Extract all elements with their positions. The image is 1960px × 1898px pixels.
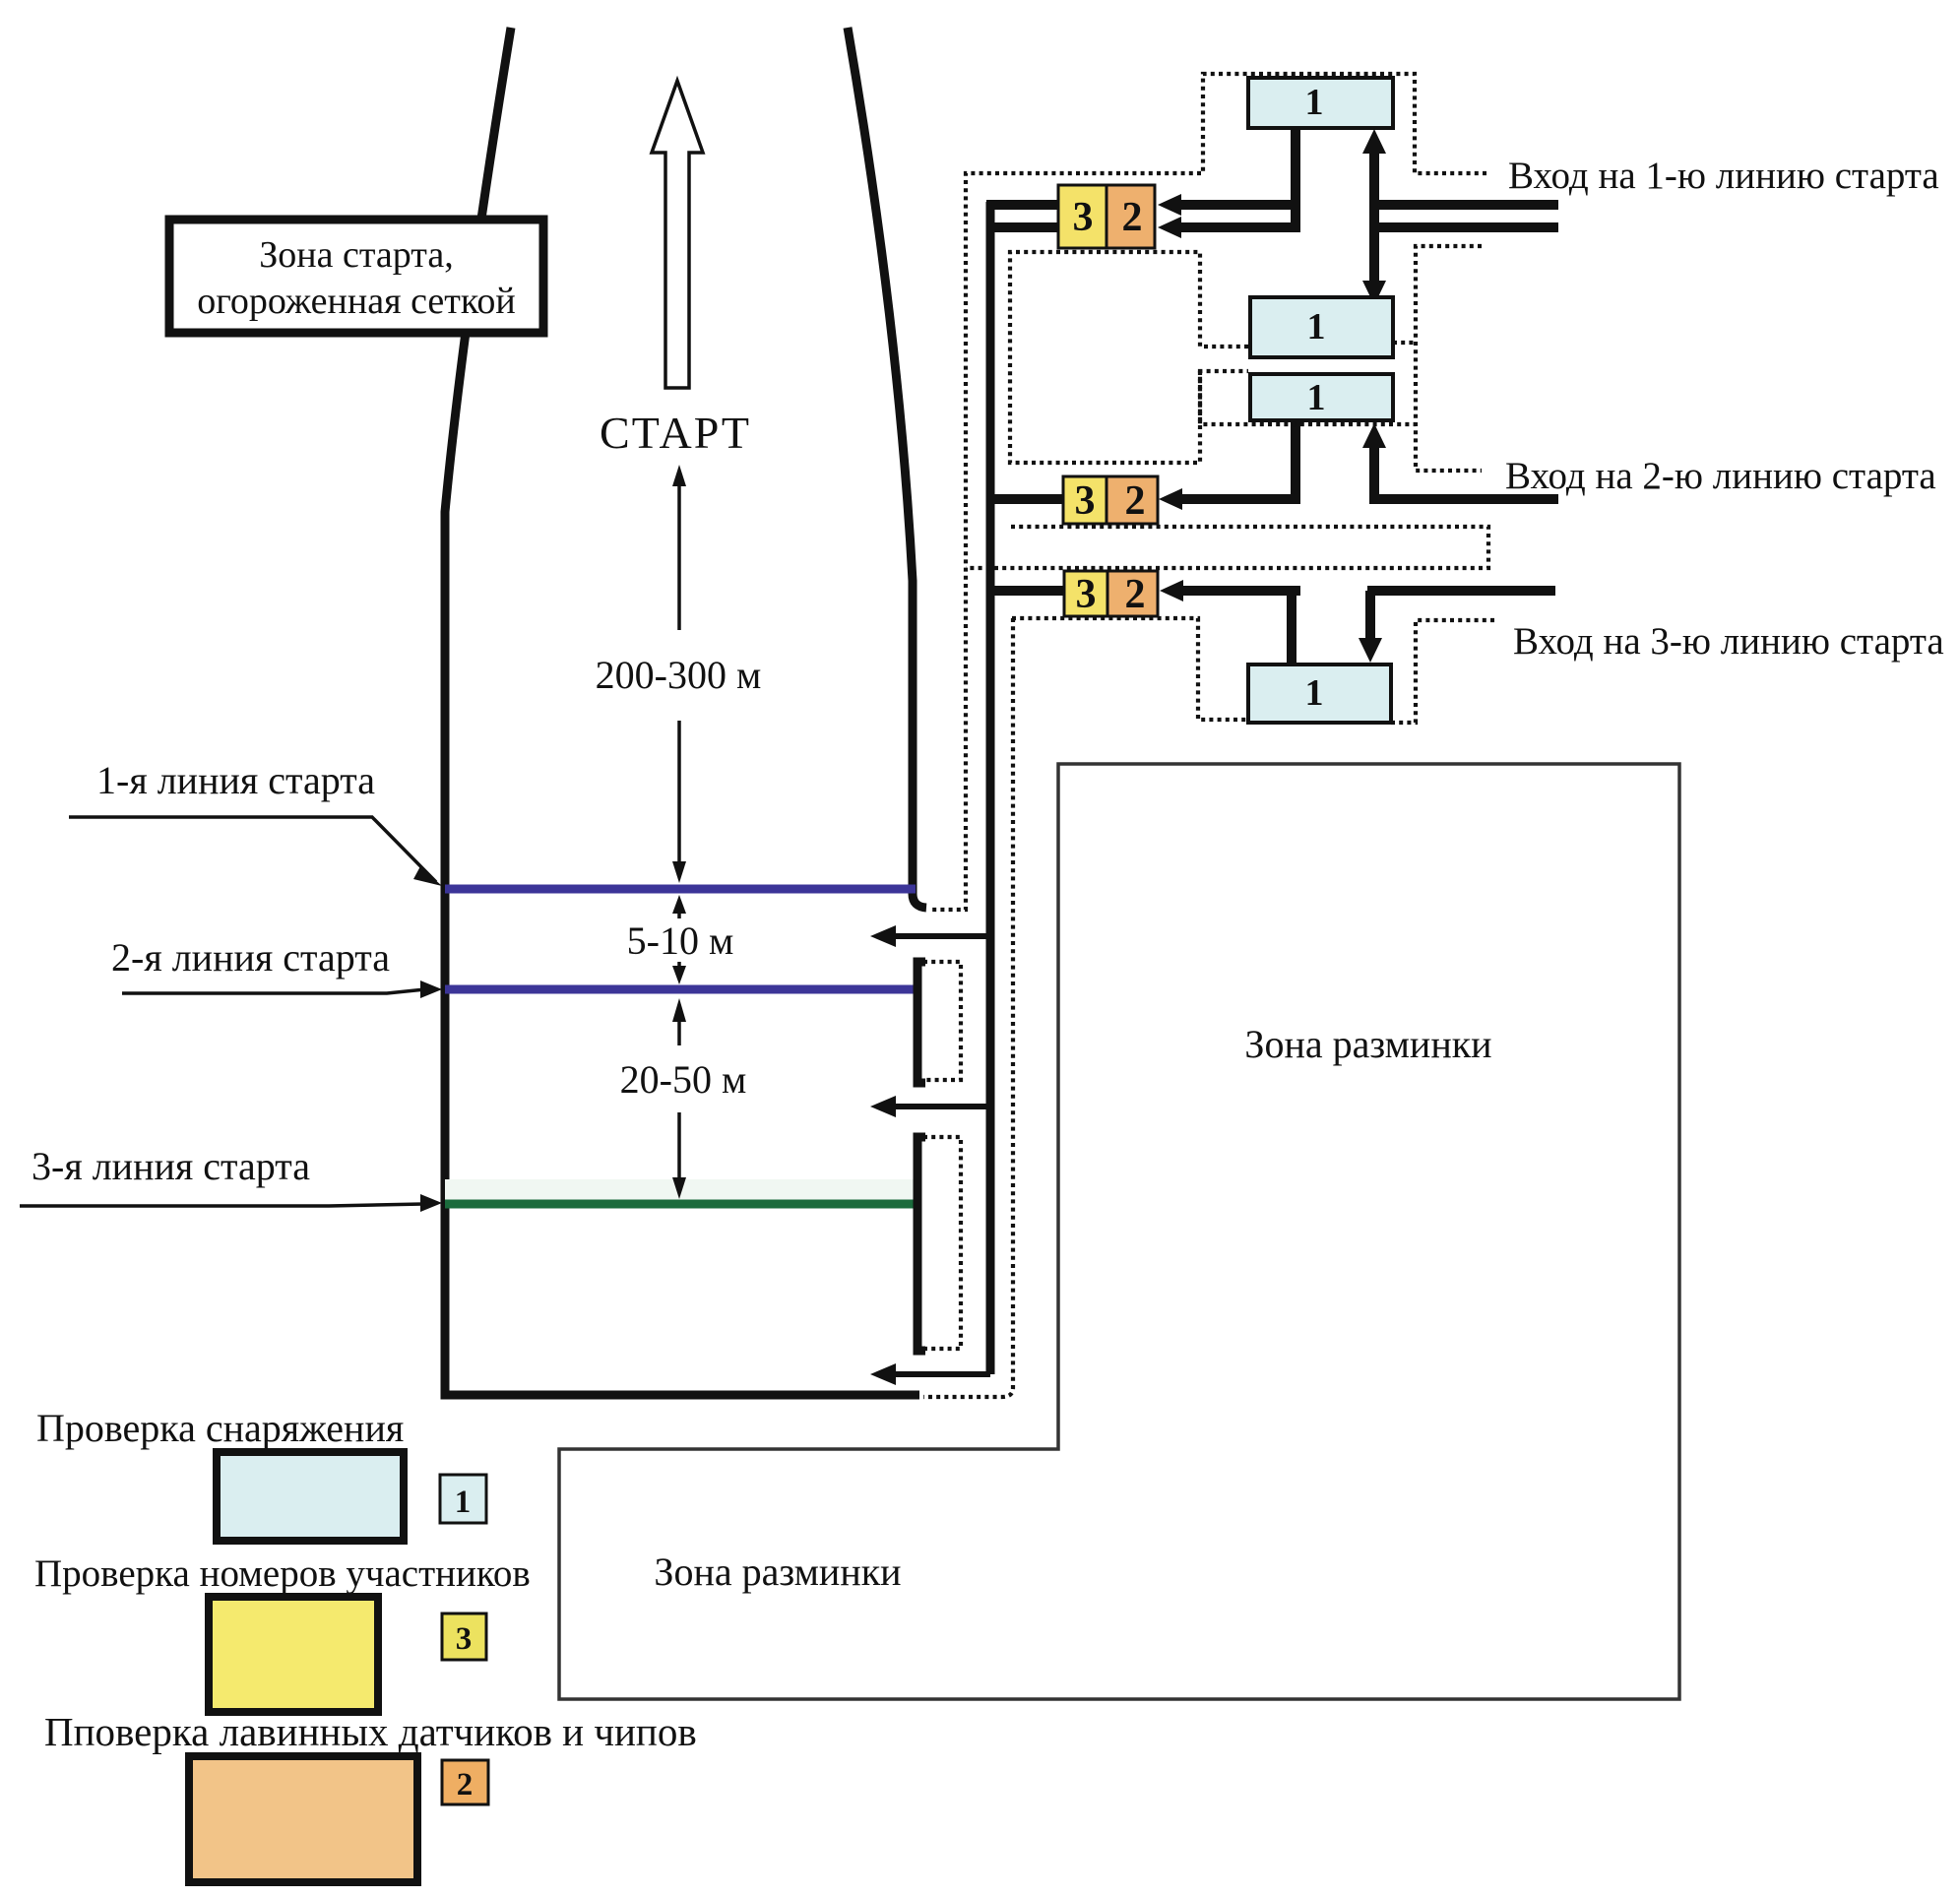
svg-text:1: 1 [455, 1485, 472, 1520]
module 3: lane wall right segment [1367, 586, 1555, 596]
module 2: arrowhead into checkpoint 2 [1159, 488, 1182, 510]
svg-text:СТАРТ: СТАРТ [600, 408, 751, 458]
svg-text:Вход на 2-ю линию старта: Вход на 2-ю линию старта [1505, 455, 1936, 497]
svg-text:2: 2 [1122, 195, 1143, 240]
equipment check box C (1) [1250, 374, 1393, 420]
leader line label start line 1 [69, 817, 436, 882]
pocket wall between line2 and line3 [917, 962, 925, 1083]
svg-text:20-50 м: 20-50 м [620, 1057, 747, 1102]
dotted wrap of box B bottom right [1393, 341, 1416, 345]
module 3: lane wall left segment [1178, 586, 1300, 596]
module 2: stub from feeder to checkpoint [986, 494, 1063, 504]
dotted long channel down to corridor [923, 618, 1013, 1397]
svg-text:3: 3 [1075, 478, 1096, 524]
module 1: lane upper wall right segment [1369, 200, 1558, 210]
legend big orange box [189, 1756, 417, 1882]
dotted loop between module 1 and module 2 [1010, 252, 1248, 463]
module 1: arrowhead into checkpoint 2 (upper) [1158, 194, 1181, 216]
dotted box D right side with leader [1391, 620, 1496, 723]
dimension arrow 200-300 m (lower segment) [677, 721, 681, 866]
checkpoint pair 2: chip check (2) [1106, 476, 1158, 524]
legend big cyan box [217, 1452, 404, 1541]
svg-text:1: 1 [1305, 672, 1324, 714]
svg-text:Пповерка лавинных датчиков и ч: Пповерка лавинных датчиков и чипов [44, 1709, 697, 1754]
module 1: up arrow into box A [1369, 150, 1379, 284]
start line 2 (blue) [445, 985, 916, 994]
module 1: stub from feeder to checkpoint (lower) [986, 222, 1058, 232]
svg-text:3: 3 [1076, 572, 1097, 617]
module 3: stub from feeder to checkpoint [986, 586, 1064, 596]
svg-text:Зона разминки: Зона разминки [1244, 1022, 1491, 1066]
svg-text:3-я линия старта: 3-я линия старта [32, 1144, 310, 1188]
dimension arrow 20-50 m lower segment [677, 1112, 681, 1181]
svg-text:200-300 м: 200-300 м [596, 653, 762, 697]
module 3: arrowhead into checkpoint 2 [1160, 580, 1183, 601]
svg-text:Вход на 1-ю линию старта: Вход на 1-ю линию старта [1508, 155, 1939, 197]
dimension arrow 20-50 m upper segment [677, 1019, 681, 1045]
dotted module 2 right side with leader [1416, 246, 1482, 471]
legend small yellow box (3) [442, 1613, 486, 1660]
big START arrow (outline) [652, 81, 703, 388]
module 2: up arrow into box C [1369, 446, 1379, 504]
dimension arrow 5-10 m bottom stub [677, 962, 681, 979]
start line 3 light band [445, 1179, 916, 1200]
svg-text:3: 3 [1073, 195, 1094, 240]
label box: start zone fenced [169, 220, 543, 333]
dotted pocket between lines 2 and 3 [923, 962, 961, 1080]
checkpoint pair 1: chip check (2) [1106, 185, 1155, 248]
entrance arrow to start line 2 [891, 1104, 990, 1109]
svg-text:5-10 м: 5-10 м [627, 918, 734, 963]
svg-text:2: 2 [1125, 478, 1146, 524]
svg-text:Зона старта,: Зона старта, [259, 234, 453, 276]
dotted pocket below line 3 [923, 1137, 961, 1349]
start line 1 (blue) [445, 885, 916, 894]
module 1: wall from box A down [1291, 126, 1300, 232]
svg-text:2: 2 [1125, 572, 1146, 617]
module 1: arrowhead into checkpoint 2 (lower) [1158, 217, 1181, 238]
start line 3 (green) [445, 1200, 916, 1209]
equipment check box D (1) [1248, 664, 1391, 723]
module 1: down arrow into box B [1362, 281, 1386, 305]
module 1: stub from feeder to checkpoint (upper) [986, 200, 1058, 210]
svg-text:огороженная сеткой: огороженная сеткой [197, 281, 516, 322]
legend small orange box (2) [442, 1760, 488, 1804]
leader line label start line 3 [20, 1204, 423, 1206]
module 3: down arrow into box D [1365, 591, 1375, 640]
svg-text:Проверка снаряжения: Проверка снаряжения [36, 1406, 404, 1450]
checkpoint pair 2: number check (3) [1063, 476, 1106, 524]
module 3: wall from box D up [1287, 591, 1296, 666]
module 2: wall from box C down [1291, 418, 1300, 504]
corridor right boundary wall [848, 28, 926, 908]
leader line label start line 2 [122, 989, 425, 993]
svg-text:2-я линия старта: 2-я линия старта [111, 935, 390, 980]
dimension arrow 200-300 m (upper segment) [677, 482, 681, 630]
dotted channel: module 1 surround and left descent [931, 74, 1486, 910]
entrance arrow to start line 3 [891, 1371, 990, 1377]
svg-text:1-я линия старта: 1-я линия старта [96, 758, 375, 802]
corridor left boundary wall [445, 28, 919, 1395]
svg-text:1: 1 [1307, 377, 1326, 418]
entrance arrow to start line 1 [891, 933, 990, 939]
equipment check box B (1) [1250, 297, 1393, 357]
dimension arrow 5-10 m top stub [677, 900, 681, 918]
checkpoint pair 3: chip check (2) [1107, 571, 1158, 616]
svg-text:3: 3 [456, 1621, 473, 1657]
pocket wall below line 3 [917, 1137, 925, 1351]
module 2: lane wall left segment [1177, 494, 1300, 504]
svg-text:Вход на 3-ю линию старта: Вход на 3-ю линию старта [1513, 620, 1944, 663]
right feeder vertical wall [986, 202, 995, 1374]
dotted U channel between modules 2 and 3 [966, 527, 1488, 568]
warm-up zone L-shaped outline [559, 764, 1679, 1699]
module 2: lane wall right segment [1369, 494, 1558, 504]
dotted module 3 left descent [1012, 618, 1248, 720]
checkpoint pair 1: number check (3) [1058, 185, 1106, 248]
dotted under box C [1200, 371, 1416, 424]
svg-text:1: 1 [1305, 82, 1324, 123]
checkpoint pair 3: number check (3) [1064, 571, 1107, 616]
svg-text:2: 2 [457, 1767, 474, 1803]
legend small cyan box (1) [440, 1475, 486, 1523]
module 1: lane upper wall left segment [1177, 200, 1300, 210]
module 1: lane lower wall right segment [1369, 222, 1558, 232]
legend big yellow box [209, 1597, 378, 1712]
equipment check box A (1) [1248, 78, 1393, 128]
module 1: lane lower wall left segment [1177, 222, 1300, 232]
svg-text:Проверка номеров участников: Проверка номеров участников [34, 1552, 531, 1595]
svg-text:1: 1 [1307, 306, 1326, 348]
svg-text:Зона разминки: Зона разминки [654, 1550, 901, 1594]
